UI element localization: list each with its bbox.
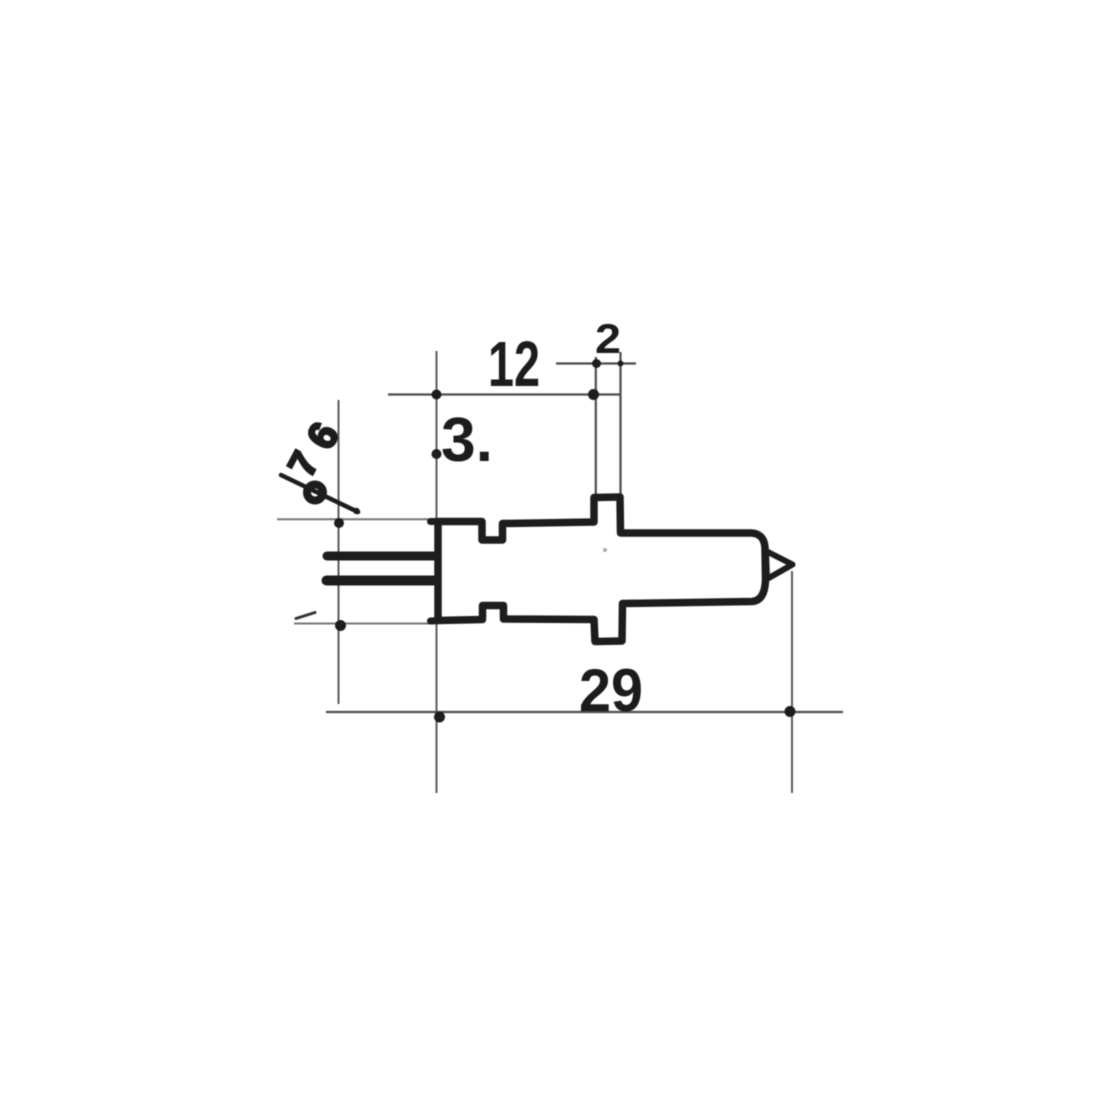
svg-text:3.: 3. [441, 406, 493, 475]
cone tip triangle [766, 551, 793, 579]
pin lower [327, 576, 437, 586]
dot 2-line left [592, 359, 601, 368]
dot 29-line right [785, 706, 796, 717]
dot 12-line left [432, 390, 442, 400]
dot phi-line bottom [335, 620, 346, 631]
dimension line 12 (y=394.5) [388, 393, 620, 395]
speck inside body [603, 548, 607, 552]
extension line body-top horizontal (y=519.3) [277, 518, 436, 520]
extension line collar-right vertical (x=620.5) [619, 352, 621, 500]
svg-text:12: 12 [488, 328, 540, 400]
extension line body-bottom horizontal (y=623.5) [294, 623, 437, 625]
dot 3-dimension [432, 449, 442, 459]
extension line left-edge vertical (x=436.5) [436, 351, 438, 793]
dot 29-line left [434, 712, 445, 723]
dot phi-line top [334, 518, 344, 528]
phi symbol circle [307, 485, 323, 501]
extension line tip vertical (x=792) [791, 571, 793, 793]
svg-text:6: 6 [299, 415, 348, 456]
dot 2-line right [618, 361, 624, 367]
svg-text:29: 29 [579, 657, 643, 724]
corner overshoot top-left [431, 518, 441, 525]
body outline [438, 497, 766, 642]
leader line end blob [353, 508, 359, 514]
pin upper [327, 552, 436, 561]
dimension line 29 (y=712) [326, 711, 843, 713]
dimension line 2 (y=363.5) [556, 362, 636, 364]
dot 12-line right [588, 389, 599, 400]
leader line through phi [281, 475, 358, 512]
extension line phi vertical (x=338.5) [338, 400, 340, 704]
svg-text:2: 2 [595, 315, 621, 362]
corner overshoot bottom-left [431, 617, 441, 625]
stray dash mark [296, 613, 315, 619]
extension line collar-left vertical (x=595.8) [595, 357, 597, 496]
